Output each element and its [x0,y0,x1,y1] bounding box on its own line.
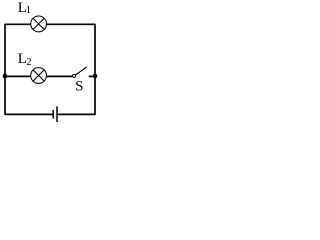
svg-text:2: 2 [26,57,31,68]
svg-text:1: 1 [26,4,32,16]
svg-text:S: S [75,78,83,94]
